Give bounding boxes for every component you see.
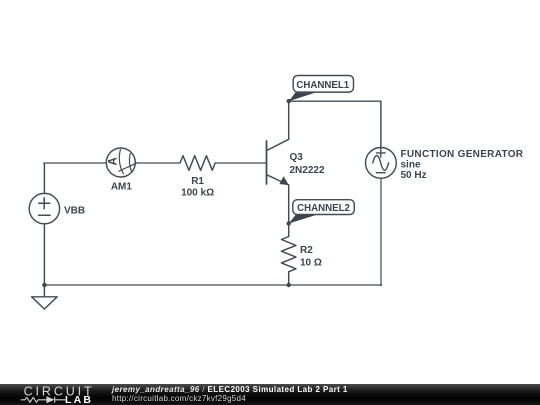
label FUNCTION GENERATOR [401, 149, 524, 160]
svg-text:R1: R1 [191, 176, 204, 187]
value sine [401, 160, 421, 171]
label R1 [191, 176, 204, 187]
CircuitLab logo [0, 384, 100, 405]
svg-text:FUNCTION GENERATOR: FUNCTION GENERATOR [401, 149, 524, 160]
wire node to function generator top [289, 101, 381, 148]
label AM1 [111, 182, 133, 193]
svg-text:LAB: LAB [65, 394, 93, 405]
svg-text:A: A [107, 157, 119, 165]
label VBB [64, 205, 85, 216]
transistor Q3 [267, 139, 289, 185]
ammeter AM1 [106, 148, 137, 177]
voltage source VBB [29, 193, 59, 223]
footer credit line [112, 385, 348, 394]
svg-text:R2: R2 [300, 245, 313, 256]
label Q3 [290, 152, 304, 163]
footer url line [112, 394, 246, 403]
svg-text:Q3: Q3 [290, 152, 304, 163]
wire collector up to node [288, 101, 290, 139]
svg-text:2N2222: 2N2222 [290, 165, 325, 176]
svg-text:AM1: AM1 [111, 182, 133, 193]
wire ammeter to R1 [135, 162, 180, 164]
wire emitter down to node [288, 185, 290, 224]
value 2N2222 [290, 165, 325, 176]
wire VBB bottom to ground rail [43, 224, 45, 285]
svg-text:sine: sine [401, 160, 421, 171]
node emitter junction [287, 221, 291, 225]
CHANNEL2 flag [289, 200, 355, 224]
wire VBB top to ammeter [44, 163, 107, 193]
CHANNEL1 flag [289, 76, 354, 102]
label R2 [300, 245, 313, 256]
value 10 Ω [300, 257, 322, 268]
svg-text:CHANNEL2: CHANNEL2 [297, 203, 350, 214]
svg-text:100 kΩ: 100 kΩ [181, 188, 214, 199]
wire R2 bottom to rail [288, 272, 290, 286]
value 50 Hz [401, 170, 427, 181]
value 100 kΩ [181, 188, 214, 199]
svg-text:10 Ω: 10 Ω [300, 257, 322, 268]
wire function generator bottom to rail [380, 178, 382, 285]
wire bottom rail [44, 284, 382, 286]
svg-text:CHANNEL1: CHANNEL1 [296, 80, 349, 91]
node collector junction [287, 99, 291, 103]
resistor R1 [180, 156, 215, 171]
node ground junction [42, 283, 46, 287]
node R2 rail junction [287, 283, 291, 287]
svg-text:50 Hz: 50 Hz [401, 170, 427, 181]
resistor R2 [281, 237, 296, 272]
svg-text:VBB: VBB [64, 205, 85, 216]
ground [32, 285, 58, 309]
wire node to R2 [288, 224, 290, 237]
wire R1 to transistor base [215, 162, 266, 164]
function generator V1 [366, 148, 397, 179]
